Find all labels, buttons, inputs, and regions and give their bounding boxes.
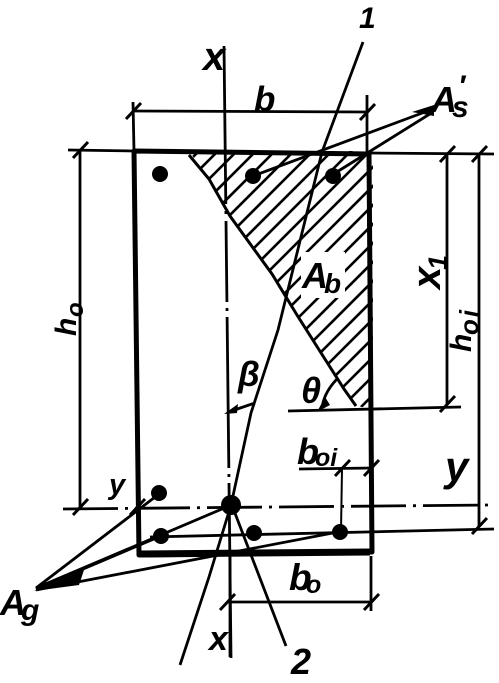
tick h0i top [472,146,487,162]
x axis extension below bottom [229,556,232,657]
leader As to center junction [36,506,229,588]
svg-text:1: 1 [423,255,453,270]
dimension line b0i [299,468,373,469]
extension line b0i [341,469,342,531]
tick b right [360,104,375,120]
svg-text:oi: oi [454,308,484,335]
label x1 [405,255,453,291]
svg-text:x: x [201,35,227,79]
tick b left [126,103,141,119]
x centerline dash-dot [224,46,231,658]
section outline rectangle [134,151,372,555]
top edge extension to right [369,153,494,154]
svg-text:y: y [107,469,127,501]
rebar dot bottom middle [246,525,262,541]
rebar dot top right [325,168,341,184]
tick x1 bottom [440,396,455,412]
svg-text:y: y [443,443,471,490]
y centerline dash-dot [63,505,488,509]
tick h0 top [73,142,88,158]
beta angle arc [229,403,255,412]
extension line right edge above top [366,95,369,152]
rebar dot left lower [153,528,169,544]
theta baseline [288,407,461,411]
svg-text:β: β [237,355,260,394]
tick y at left edge [130,499,145,515]
svg-text:oi: oi [315,444,338,472]
svg-text:x: x [207,620,230,658]
svg-text:g: g [20,594,39,627]
svg-text:b: b [254,80,275,119]
svg-text:1: 1 [359,2,376,35]
leader A's to top right rebar [332,112,433,175]
beta arrowhead [224,404,238,414]
rebar dot top middle [245,168,261,184]
rebar dot bottom right [332,524,348,540]
extension line left edge above top [133,102,134,151]
tick b0i right [364,460,379,476]
tick x1 top [440,146,455,162]
leader As to left lower rebar [36,536,161,589]
arrow wedge A's [412,105,434,116]
bottom rebar row line [150,529,494,537]
dimension line h0i [478,155,481,527]
tick h0 bottom [73,499,88,515]
tick b0 right [364,594,379,610]
white gap for Ab label [301,252,345,298]
svg-text:2: 2 [290,641,311,682]
leader As to left upper rebar [36,494,159,588]
extension right edge below bottom [370,556,373,611]
theta angle arc [322,378,338,408]
arrow wedge As [34,570,84,591]
svg-text:h: h [50,318,83,336]
label h0 [50,302,89,336]
tick b0i left [335,460,350,476]
rebar dot top left [152,166,168,182]
top edge extension to left [68,150,134,151]
dimension line x1 [446,155,449,405]
leader As to right lower rebar [36,532,338,590]
dimension line b0 [227,601,371,604]
svg-text:h: h [445,334,478,352]
dimension line b [133,111,367,112]
theta arrowhead [317,397,330,412]
rebar dot left upper [151,485,167,501]
svg-text:o: o [306,571,321,599]
svg-text:b: b [324,268,341,299]
svg-text:o: o [62,302,89,317]
leader A's to top middle rebar [253,109,433,176]
dimension line h0 [79,150,82,507]
svg-text:θ: θ [301,370,321,411]
bottom edge thick overlay [141,552,370,554]
hatching of compression zone [0,138,499,425]
junction dot center [221,495,241,515]
tick h0i bottom [472,518,487,534]
compression zone boundary line [189,155,356,406]
tick b0 left [220,594,235,610]
label h0i [445,308,484,352]
line 1 [180,42,363,665]
line 2 leader [233,508,286,646]
